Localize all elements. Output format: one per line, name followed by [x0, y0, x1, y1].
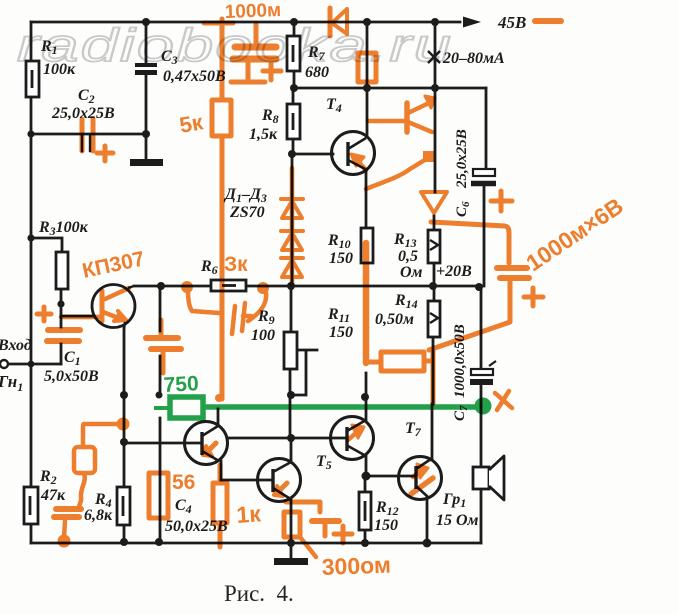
resistor orange rounded near R2 [74, 447, 95, 473]
capacitor orange 1000m (top) [254, 24, 259, 43]
measure break x mark [428, 51, 440, 63]
svg-text:Зк: Зк [224, 253, 248, 276]
orange dash right of 45V [535, 18, 561, 24]
wire R14-R13 column [433, 216, 436, 301]
wire y=88 horizontal [294, 87, 486, 90]
svg-text:150: 150 [329, 324, 353, 341]
capacitor C6 [471, 169, 496, 184]
resistor green 750 [170, 397, 203, 418]
resistor R13 [428, 230, 440, 263]
wire KP307 source down [124, 322, 125, 330]
wire bottom rail [31, 542, 481, 545]
resistor R6 [211, 280, 246, 291]
wire Q2 right / T5 base y=438 [227, 437, 346, 440]
transistor KP307 (circle) [92, 285, 135, 328]
wire diode chain column [291, 154, 294, 286]
resistor R10 [361, 228, 373, 263]
wire Q3 emitter to ground rail [290, 500, 293, 543]
svg-text:56: 56 [172, 471, 195, 494]
resistor R1 [26, 61, 39, 97]
speaker Gr1 [473, 456, 504, 500]
wire C6 branch [484, 88, 486, 286]
capacitor orange C1 marks [48, 327, 80, 333]
capacitor orange C2 marks [82, 119, 93, 151]
transistor annotation (orange) near x=420 [404, 103, 410, 132]
wire R12 column [364, 476, 367, 543]
wire T7 emitter to bottom rail [426, 497, 429, 543]
wire orange down to output node [431, 350, 436, 403]
resistor orange (annotation on T4 collector column) [358, 53, 376, 82]
svg-text:45В: 45В [497, 13, 526, 32]
svg-text:100: 100 [251, 327, 275, 344]
chevron R13 [430, 240, 438, 250]
resistor orange 56 box [149, 473, 168, 518]
svg-text:750: 750 [163, 372, 199, 397]
capacitor C7 [470, 361, 496, 382]
arrow inside T5 [348, 432, 357, 440]
svg-text:15 Ом: 15 Ом [436, 512, 479, 529]
arrow inside Q3 [280, 483, 287, 490]
transistor Q2 (bottom left) [185, 422, 228, 465]
capacitor orange near R4 [56, 506, 81, 512]
resistor orange 1k box [218, 465, 223, 483]
wire top +45V rail [31, 21, 460, 24]
orange node dot left of R6 [188, 290, 219, 313]
wire x=367 collector column [366, 22, 369, 137]
svg-text:R3100к: R3100к [38, 219, 89, 238]
orange handwritten texts [80, 0, 628, 580]
arrowhead +45V [463, 17, 481, 28]
svg-text:680: 680 [305, 64, 329, 81]
arrow inside T4 [356, 159, 366, 170]
ground stem under bottom rail [290, 543, 293, 558]
resistor R2 [24, 487, 38, 524]
svg-text:300ом: 300ом [321, 552, 391, 580]
wire C4 column x=160 [159, 286, 162, 543]
svg-text:0,47х50В: 0,47х50В [163, 68, 226, 85]
wire right rail to speaker [480, 404, 483, 543]
orange marks replacing R2: node dot and wire [83, 424, 122, 447]
wire R7 branch [293, 22, 296, 88]
wire C2 horizontal y=134 [31, 133, 146, 136]
svg-text:150: 150 [374, 517, 398, 534]
wire T5 emitter / T7 base [366, 455, 415, 476]
resistor R4 [117, 487, 130, 525]
svg-text:Ом: Ом [400, 264, 423, 281]
wire T4 emitter to R10 [365, 170, 368, 228]
svg-text:0,5: 0,5 [398, 248, 418, 265]
svg-text:100к: 100к [43, 61, 76, 78]
diode orange near C6 [421, 192, 447, 213]
svg-text:6,8к: 6,8к [84, 507, 113, 524]
transistor Q3 (bottom middle) [258, 459, 301, 502]
chevron R14 [430, 313, 438, 323]
svg-text:Вход: Вход [0, 337, 32, 354]
svg-text:1,5к: 1,5к [249, 126, 278, 143]
orange plus near C6 [491, 191, 512, 211]
svg-text:1к: 1к [236, 500, 263, 528]
orange node dots [58, 281, 270, 548]
capacitor orange 1000m x 6V [497, 265, 527, 271]
ground under Q3 [274, 558, 308, 565]
arrow inside Q2 [209, 443, 216, 450]
wire green lead (dark stub) [154, 406, 171, 410]
transistor T5 [331, 417, 374, 460]
resistor R7 [287, 36, 300, 71]
wire gate lead KP307 [61, 315, 92, 318]
input terminal Gn1 [0, 360, 8, 368]
capacitor C2 (black plates under orange) [82, 136, 90, 151]
wire orange diode to cap 1000m x 6V [431, 222, 509, 263]
svg-text:25,0х25В: 25,0х25В [454, 129, 470, 189]
wire R9 bracket [292, 350, 317, 395]
wire T7 collector column [432, 337, 433, 460]
ground under C3 [130, 159, 163, 166]
wire x=435 from top rail with measure break [434, 22, 437, 192]
wire right rail below +20V [480, 286, 483, 404]
svg-text:0,50м: 0,50м [375, 311, 414, 328]
wire KP307 drain up to rail [128, 286, 134, 288]
resistor R3 [56, 252, 68, 289]
wire T4 base [292, 153, 333, 156]
wire R3 branch and C1 column [31, 238, 62, 364]
svg-text:150: 150 [329, 250, 353, 267]
orange x mark at output [495, 391, 512, 410]
orange node hook right of R6 [248, 293, 266, 321]
diode chain D1-D3 (orange) [290, 168, 295, 284]
resistor R9 [284, 332, 297, 369]
wire Q2 emitter down [220, 461, 223, 480]
wire orange stub on top rail [204, 21, 233, 26]
wire Q3 base [221, 479, 272, 482]
wire orange diagonal to R14 area [429, 322, 510, 350]
wire orange zigzag T4 emitter to node [366, 158, 428, 189]
resistor orange 5k box [212, 100, 231, 136]
svg-text:20–80мА: 20–80мА [442, 50, 505, 67]
wire input to C1 [7, 363, 61, 366]
wire green output [202, 404, 477, 410]
resistor inner ticks [31, 70, 34, 88]
wire drain column x=124 [123, 326, 126, 543]
wire orange vertical 5k column [220, 19, 225, 399]
transistor KP307 internals (orange) [100, 291, 105, 321]
wire Q2 base wire y=443 [124, 442, 201, 445]
wire main rail y=286 [134, 285, 481, 288]
svg-text:1000м: 1000м [224, 0, 281, 23]
capacitor C3 [135, 65, 157, 73]
wire R9 column [290, 286, 291, 438]
resistor orange (annotation, horizontal) [381, 352, 424, 371]
resistor R12 [359, 492, 371, 530]
wire Q3 collector [290, 438, 293, 462]
resistor R8 [287, 104, 300, 139]
capacitor orange small near R9 [232, 303, 251, 334]
wire orange vertical from R10 [363, 243, 370, 363]
svg-text:47к: 47к [40, 487, 66, 504]
resistor R14 [428, 301, 440, 337]
orange square and cap bottom center [286, 502, 320, 512]
transistor T7 [399, 457, 442, 500]
wire left rail [30, 22, 33, 543]
wire Q2 collector up to green node [217, 409, 220, 426]
svg-text:Рис. 4.: Рис. 4. [224, 581, 294, 606]
diode orange on rail (bowtie) [328, 8, 333, 36]
svg-text:+20В: +20В [436, 263, 472, 280]
wire R8 branch [292, 88, 295, 154]
orange node square [423, 151, 434, 162]
arrow inside T7 [413, 471, 420, 477]
svg-text:Д1–Д3: Д1–Д3 [223, 186, 267, 205]
wire R10 to T5 column [365, 373, 368, 421]
transistor T4 [332, 132, 375, 175]
svg-text:5,0х50В: 5,0х50В [44, 368, 99, 385]
svg-text:ZS70: ZS70 [229, 204, 265, 221]
node green dot [475, 398, 492, 415]
capacitor orange at x=161 [159, 320, 164, 335]
wire C3 branch [145, 22, 148, 159]
